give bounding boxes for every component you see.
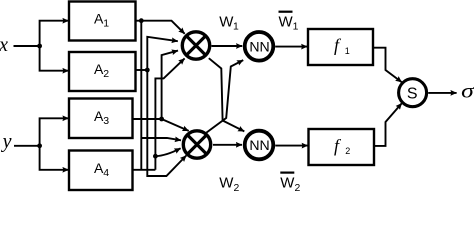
wire x input stub — [14, 45, 40, 47]
wire y to A4 — [40, 146, 69, 170]
box A2 — [69, 52, 136, 91]
wire A4 output stub — [133, 169, 156, 171]
wire A1 to product1 — [141, 21, 184, 34]
wire A3 vertical bus to product1 — [162, 51, 178, 119]
output label sigma — [461, 80, 474, 102]
svg-text:S: S — [407, 86, 418, 103]
wire A1 output stub — [136, 20, 142, 22]
wire W1 cross to NN2 — [209, 58, 245, 131]
node A4 junction dot — [153, 154, 158, 159]
label W2bar — [280, 172, 300, 194]
wire x to A1 — [40, 21, 69, 46]
node A3 junction dot — [159, 117, 164, 122]
svg-text:1: 1 — [345, 46, 350, 56]
box A4 — [69, 151, 133, 191]
normalizer NN1 — [245, 32, 274, 61]
svg-text:NN: NN — [249, 39, 269, 55]
svg-text:3: 3 — [103, 115, 109, 127]
wire y input stub — [14, 145, 40, 147]
svg-text:W: W — [219, 14, 234, 31]
wire A2 to product1 — [147, 37, 178, 70]
label W2 — [219, 175, 239, 194]
summer S — [399, 79, 427, 107]
wire S output — [428, 92, 456, 94]
wire product2 to NN2 — [213, 144, 242, 146]
wire A3 output stub — [133, 118, 162, 120]
wire f1 to S — [373, 48, 402, 82]
label W1bar — [279, 11, 299, 33]
wire A4 vertical bus to product1 — [155, 58, 184, 169]
svg-text:W: W — [280, 175, 295, 192]
wire A1 branch to product2 — [141, 138, 181, 140]
wire x to A2 — [40, 46, 69, 71]
svg-text:2: 2 — [234, 183, 240, 192]
wire f2 to S — [374, 103, 402, 146]
wire A3 to product2 diagonal — [162, 119, 189, 131]
svg-text:y: y — [1, 131, 12, 153]
svg-text:NN: NN — [249, 137, 269, 153]
svg-text:2: 2 — [103, 68, 109, 80]
svg-text:W: W — [219, 175, 234, 192]
node A2 junction dot — [145, 68, 150, 73]
wire NN2 to f2 — [275, 145, 308, 147]
multiplier product1 — [182, 32, 209, 59]
wire A2 output stub — [136, 69, 148, 71]
svg-text:1: 1 — [103, 18, 109, 30]
svg-text:2: 2 — [345, 146, 350, 156]
wire A2 to product2 underpass — [147, 70, 186, 176]
svg-text:1: 1 — [293, 22, 299, 33]
svg-text:4: 4 — [103, 167, 109, 179]
box f1 — [308, 29, 373, 65]
normalizer NN2 — [245, 131, 274, 160]
wire NN1 to f1 — [275, 46, 307, 48]
svg-text:x: x — [0, 34, 8, 56]
wire y to A3 — [40, 118, 69, 146]
svg-text:1: 1 — [233, 22, 239, 33]
wire A4 branch to product2 — [155, 148, 180, 156]
node A1 junction dot — [139, 18, 144, 23]
wire W2 cross to NN1 — [206, 60, 243, 133]
box A1 — [69, 2, 136, 41]
svg-text:σ: σ — [461, 80, 474, 102]
box f2 — [309, 129, 375, 165]
box A3 — [69, 99, 133, 139]
node x junction dot — [37, 44, 42, 49]
multiplier product2 — [183, 131, 210, 158]
wire product1 to NN1 — [212, 45, 243, 47]
svg-text:W: W — [279, 14, 294, 31]
node y junction dot — [37, 143, 42, 148]
label W1 — [219, 14, 239, 33]
wire A1 vertical bus — [140, 21, 142, 170]
svg-text:2: 2 — [295, 183, 301, 192]
